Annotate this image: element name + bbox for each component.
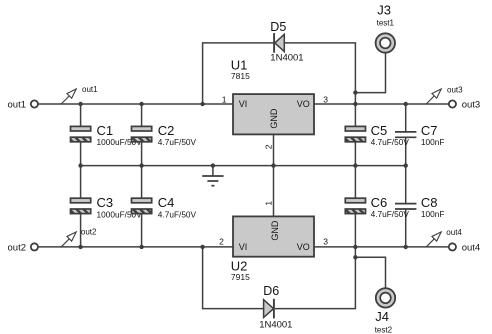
svg-text:100nF: 100nF	[421, 209, 445, 219]
svg-text:100nF: 100nF	[421, 137, 445, 147]
svg-text:out1: out1	[8, 100, 27, 111]
junction middle rail at C2	[139, 163, 143, 167]
svg-text:4.7uF/50V: 4.7uF/50V	[158, 137, 197, 147]
svg-text:C2: C2	[158, 123, 175, 138]
svg-text:out4: out4	[446, 228, 462, 237]
svg-text:2: 2	[264, 144, 274, 149]
node out4 net flag	[426, 228, 462, 247]
svg-text:test1: test1	[377, 18, 395, 27]
regulator U2 body	[233, 216, 314, 256]
junction middle rail at C1	[78, 163, 82, 167]
svg-text:C4: C4	[158, 195, 175, 210]
svg-text:4.7uF/50V: 4.7uF/50V	[371, 209, 410, 219]
connector J3 (test point)	[376, 33, 395, 52]
node out2 net flag	[61, 228, 97, 247]
svg-text:VI: VI	[239, 242, 248, 252]
regulator U1 body	[233, 94, 314, 134]
svg-text:out4: out4	[462, 242, 481, 253]
capacitor C3	[71, 198, 91, 213]
diode D5	[274, 33, 284, 53]
junction middle rail at ground	[211, 163, 215, 167]
svg-text:test2: test2	[375, 325, 393, 334]
wire C6 leads	[354, 166, 356, 247]
port out2	[8, 242, 39, 253]
svg-text:out1: out1	[82, 85, 98, 94]
capacitor C7	[395, 132, 416, 137]
port out4	[449, 242, 480, 253]
wire J4 stub	[355, 257, 385, 288]
junction top rail at C5	[353, 102, 357, 106]
junction out2 rail at C3	[78, 245, 82, 249]
svg-text:1: 1	[222, 94, 227, 104]
svg-text:1: 1	[264, 201, 274, 206]
svg-text:J3: J3	[377, 2, 391, 17]
junction out2 rail at D6 branch	[200, 245, 204, 249]
wire top rail right (U1 VO to out3)	[314, 103, 449, 105]
ground	[202, 166, 223, 186]
svg-text:7915: 7915	[231, 272, 250, 282]
diode D6	[264, 299, 274, 319]
wire C2 leads	[141, 104, 143, 166]
wire out2 rail right (U2 VO to out4)	[314, 246, 449, 248]
junction out2 rail at C6	[353, 245, 357, 249]
svg-text:1N4001: 1N4001	[259, 320, 292, 331]
svg-text:J4: J4	[375, 309, 389, 324]
svg-text:out2: out2	[8, 242, 27, 253]
svg-text:7815: 7815	[231, 71, 250, 81]
capacitor C8	[395, 204, 416, 209]
capacitor C2	[132, 126, 152, 141]
svg-text:C3: C3	[97, 195, 114, 210]
wire C1 leads	[80, 104, 82, 166]
svg-text:C7: C7	[421, 123, 438, 138]
junction middle rail at C7	[404, 163, 408, 167]
wire D6 loop left segment	[203, 247, 264, 309]
node out1 net flag	[61, 85, 98, 104]
wire D6 loop right segment	[275, 247, 355, 309]
junction top rail at C2	[139, 102, 143, 106]
junction middle rail at C5	[353, 163, 357, 167]
junction top rail at C1	[78, 102, 82, 106]
svg-text:C6: C6	[371, 195, 388, 210]
connector J4 (test point)	[376, 288, 395, 307]
capacitor C5	[345, 126, 365, 141]
svg-text:out2: out2	[81, 228, 97, 237]
wire C5 leads	[354, 104, 356, 166]
node out3 net flag	[426, 85, 463, 104]
svg-text:2: 2	[219, 236, 224, 246]
svg-text:GND: GND	[269, 108, 279, 129]
wire D5 loop right segment	[284, 43, 355, 104]
svg-text:VO: VO	[297, 99, 310, 109]
svg-text:out3: out3	[462, 100, 481, 111]
wire C3 leads	[80, 166, 82, 247]
svg-text:4.7uF/50V: 4.7uF/50V	[158, 209, 197, 219]
svg-text:3: 3	[323, 236, 328, 246]
wire middle ground rail	[81, 165, 406, 167]
junction middle rail at GND pins	[271, 163, 275, 167]
svg-text:VO: VO	[297, 242, 310, 252]
capacitor C6	[345, 198, 365, 213]
svg-text:D5: D5	[270, 20, 286, 34]
wire out2 rail left (out2 to U2 VI)	[38, 246, 233, 248]
junction out2 rail at C4	[139, 245, 143, 249]
junction J4 tap	[353, 255, 357, 259]
junction top rail at D5 branch	[200, 102, 204, 106]
wire C4 leads	[141, 166, 143, 247]
svg-text:out3: out3	[447, 85, 463, 94]
wire C7 leads	[405, 104, 407, 166]
capacitor C1	[71, 126, 91, 141]
svg-text:D6: D6	[263, 284, 279, 298]
junction top rail at C7	[404, 102, 408, 106]
svg-text:1N4001: 1N4001	[270, 52, 303, 63]
wire C8 leads	[405, 166, 407, 247]
wire J3 stub	[355, 53, 385, 93]
junction out2 rail at C8	[404, 245, 408, 249]
svg-text:C8: C8	[421, 195, 438, 210]
svg-text:3: 3	[323, 94, 328, 104]
port out1	[8, 100, 39, 111]
svg-text:C5: C5	[371, 123, 388, 138]
svg-text:VI: VI	[239, 99, 248, 109]
wire top rail left (out1 to U1 VI)	[38, 103, 233, 105]
junction J3 tap	[353, 90, 357, 94]
svg-text:4.7uF/50V: 4.7uF/50V	[371, 137, 410, 147]
port out3	[449, 100, 480, 111]
svg-text:GND: GND	[270, 220, 280, 241]
wire U1 GND pin 2 lead	[273, 134, 275, 165]
capacitor C4	[132, 198, 152, 213]
wire U2 GND pin 1 lead	[273, 166, 275, 217]
svg-text:C1: C1	[97, 123, 114, 138]
wire D5 loop left segment	[203, 43, 274, 104]
